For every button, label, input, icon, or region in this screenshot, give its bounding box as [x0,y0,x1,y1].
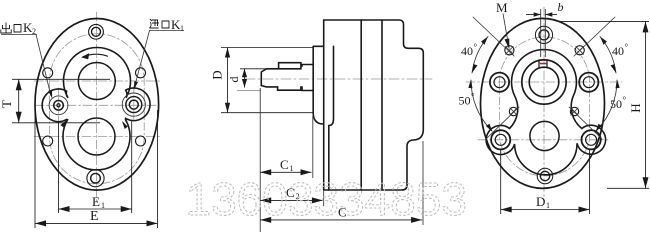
svg-text:°: ° [625,42,629,52]
svg-text:50: 50 [610,97,622,111]
ext line cover face [312,116,314,178]
lower gear bore [78,118,115,155]
ring hole lower-right [586,134,597,145]
svg-text:1: 1 [101,201,105,210]
horizontal centerline shaft [466,81,622,83]
bolt chain oblong [500,37,590,176]
keyway [539,60,547,68]
M hole lower-right [570,107,578,115]
ext line from shaft tip [259,88,261,232]
ext line block face [323,191,325,206]
label 进口K1 [150,19,170,28]
port K2 bulls-eye [57,104,60,107]
svg-text:°: ° [623,95,627,105]
svg-text:M: M [496,0,508,15]
spigot face [312,47,314,113]
dim C2 [260,199,323,201]
svg-text:b: b [558,0,564,14]
bolt hole lower-right [136,136,146,146]
dim D1 [501,150,590,214]
flow arrow left [60,120,67,128]
leader K2 [1,34,37,36]
dim T [12,79,110,123]
svg-text:°: ° [474,42,478,52]
shaft hole [529,67,559,97]
svg-text:50: 50 [459,94,471,108]
ring hole upper-right [583,77,594,88]
dim E1 [59,120,132,213]
radial line 50 right [569,107,602,139]
upper gear bore [78,63,115,100]
centerline lower gear axis [34,136,160,138]
centerline port axis [35,104,159,106]
top hole [539,30,549,40]
dim D [221,48,313,113]
bolt-circle chain oblong [50,34,145,184]
body block top [324,20,424,190]
M hole lower-left [509,107,517,115]
svg-text:H: H [628,103,643,112]
arc 50 left [471,80,492,131]
horizontal centerline rings [478,139,608,141]
cover joint line [329,46,334,190]
radial line 40 right [574,17,615,56]
shaft centerline [245,78,432,80]
svg-text:1: 1 [290,164,294,173]
svg-text:13603334853: 13603334853 [186,173,467,225]
flange oval outline [35,19,159,191]
svg-text:d: d [227,77,241,83]
svg-text:D: D [210,70,225,79]
svg-text:40: 40 [612,44,624,58]
radial line 50 left [486,107,519,139]
cover plate [313,20,324,190]
joint line 1 [360,20,362,190]
ring hole lower-left [495,134,506,145]
dim d [237,69,266,91]
body peanut contour [42,47,150,169]
lower bore circle [530,121,559,150]
svg-text:1: 1 [180,24,184,33]
bottom hole [540,171,549,180]
svg-text:E: E [90,209,99,224]
arc arrowheads [481,37,488,45]
arc 50 right [596,80,617,131]
port K1 bulls-eye [129,100,138,109]
arc 40 right [600,37,616,74]
rotation arrow [83,54,108,57]
dim E [35,110,158,228]
leader K1 [149,30,184,32]
rear peanut contour [486,50,605,175]
top hole [92,27,101,36]
vertical centerline [543,7,545,198]
M hole upper-left [505,46,514,55]
flange oval outline [481,18,605,188]
joint line 2 [381,20,383,190]
ext line boss face [422,141,424,225]
svg-text:40: 40 [461,44,473,58]
dim C1 [260,171,311,173]
bottom hole [91,173,101,183]
svg-text:D: D [536,194,545,209]
dim C [260,219,422,221]
ring hole upper-left [494,77,505,88]
bolt hole upper-left [43,68,53,78]
flow arrow right [122,121,128,129]
M hole upper-right [575,46,584,55]
svg-text:E: E [92,194,100,209]
dim b [540,9,542,57]
svg-text:C: C [280,157,289,172]
arc 40 left [472,37,488,74]
dim H [560,21,649,188]
centerline vertical left view [96,12,98,202]
bolt hole upper-right [136,68,146,78]
svg-text:°: ° [471,92,475,102]
centerline upper gear axis [34,80,160,82]
centerline port K1 vertical [133,86,135,122]
svg-text:1: 1 [546,201,550,210]
radial line 40 left [473,17,514,56]
centerline port K2 vertical [58,88,60,123]
bolt hole lower-left [43,136,53,146]
svg-text:T: T [0,100,14,108]
shaft outline [261,63,313,91]
label 出口K2 [1,23,21,34]
